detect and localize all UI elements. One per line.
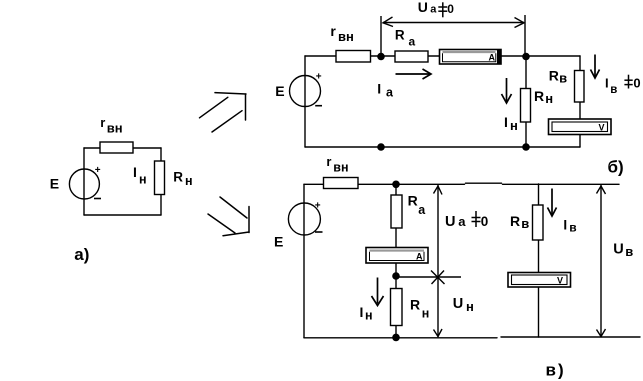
svg-text:н: н bbox=[545, 91, 553, 106]
voltmeter V (circuit v) bbox=[508, 273, 571, 288]
svg-text:E: E bbox=[275, 83, 284, 99]
svg-text:R: R bbox=[173, 169, 183, 184]
wire: circuit a bottom bbox=[84, 214, 161, 216]
svg-text:r: r bbox=[326, 154, 331, 169]
wire: circuit v middle branch vertical (Ra + ammeter + Rn) bbox=[395, 184, 397, 337]
dimension line U_v (circuit v) bbox=[597, 185, 606, 337]
svg-text:I: I bbox=[133, 164, 137, 180]
wire: circuit v left vertical bbox=[303, 184, 305, 337]
svg-text:н: н bbox=[185, 174, 193, 188]
wire: circuit a right vertical bbox=[160, 148, 162, 215]
svg-text:б): б) bbox=[608, 157, 624, 176]
arrow to circuit v (lower double arrow) bbox=[208, 197, 249, 236]
svg-text:I: I bbox=[563, 218, 567, 233]
svg-text:в: в bbox=[610, 84, 617, 96]
svg-text:a: a bbox=[409, 35, 416, 49]
wire: through source circuit b bbox=[304, 76, 306, 107]
svg-text:a: a bbox=[418, 203, 426, 217]
svg-text:вн: вн bbox=[338, 29, 354, 44]
svg-text:н: н bbox=[510, 118, 518, 133]
svg-text:н: н bbox=[139, 173, 147, 187]
svg-text:в): в) bbox=[546, 360, 566, 379]
svg-text:0: 0 bbox=[447, 2, 454, 16]
current arrow I_v (circuit v) bbox=[548, 189, 557, 217]
svg-text:A: A bbox=[489, 53, 496, 63]
current arrow I_n (circuit v) bbox=[372, 278, 384, 306]
node dot (circuit b, top left junction) bbox=[377, 53, 385, 61]
wire: circuit v bottom bbox=[304, 337, 497, 339]
svg-text:R: R bbox=[510, 213, 520, 229]
svg-text:в: в bbox=[559, 71, 567, 86]
node dot (circuit b, top right junction) bbox=[522, 53, 530, 61]
svg-text:вн: вн bbox=[107, 121, 123, 136]
wire: circuit a left vertical bbox=[83, 148, 85, 215]
wire: through source circuit a bbox=[83, 169, 85, 199]
node dot (circuit v, bottom junction) bbox=[392, 334, 400, 342]
resistor R_n (circuit v) bbox=[391, 289, 403, 326]
svg-text:+: + bbox=[316, 71, 322, 82]
svg-text:в: в bbox=[569, 220, 576, 234]
ammeter A (circuit b) bbox=[440, 50, 502, 65]
svg-text:V: V bbox=[557, 276, 563, 286]
voltmeter V (circuit b) bbox=[549, 119, 612, 135]
source E (circuit b) bbox=[290, 76, 321, 107]
svg-text:I: I bbox=[504, 114, 508, 130]
label - (circuit a source polarity) bbox=[94, 198, 101, 200]
node dot (circuit v, top junction) bbox=[392, 181, 400, 189]
dimension line U_a (circuit b) bbox=[383, 22, 524, 24]
svg-text:U: U bbox=[445, 214, 455, 230]
svg-text:а): а) bbox=[74, 245, 89, 264]
svg-text:R: R bbox=[395, 28, 405, 43]
svg-text:в: в bbox=[625, 244, 633, 259]
wire: circuit v right branch vertical (Rv + voltmeter) bbox=[538, 184, 540, 337]
svg-text:U: U bbox=[453, 296, 463, 312]
svg-text:a: a bbox=[458, 214, 466, 229]
svg-text:н: н bbox=[365, 309, 373, 323]
resistor R_n (circuit a) bbox=[155, 161, 165, 195]
ammeter A (circuit v) bbox=[366, 248, 428, 264]
wire: circuit b bottom bbox=[305, 146, 580, 148]
source E (circuit v) bbox=[288, 203, 320, 235]
node dot (circuit b, bottom right junction) bbox=[522, 143, 530, 151]
current arrow I_a (circuit b) bbox=[396, 69, 432, 79]
svg-text:U: U bbox=[613, 242, 623, 258]
svg-text:0: 0 bbox=[633, 76, 640, 91]
svg-text:r: r bbox=[100, 115, 105, 130]
svg-text:V: V bbox=[599, 123, 605, 133]
wire: circuit a top bbox=[84, 147, 161, 149]
resistor R_v (circuit b) bbox=[575, 71, 585, 103]
node dot (circuit b, bottom left junction) bbox=[377, 143, 385, 151]
resistor R_v (circuit v) bbox=[533, 205, 544, 240]
label - (circuit b source polarity) bbox=[315, 105, 322, 107]
svg-text:r: r bbox=[330, 23, 336, 39]
wire: circuit v top bbox=[304, 183, 465, 185]
resistor R_n (circuit b) bbox=[521, 89, 531, 123]
label not-equal-zero (circuit b, I_v) bbox=[624, 75, 632, 89]
dimension ticks U_a (circuit b) bbox=[381, 15, 525, 56]
wire: circuit b top bbox=[305, 55, 580, 57]
arrow to circuit b (upper double arrow) bbox=[200, 93, 247, 132]
node dot (circuit v, middle junction) bbox=[392, 272, 400, 280]
svg-text:I: I bbox=[377, 81, 381, 97]
resistor r_vn (circuit b) bbox=[336, 51, 371, 63]
svg-text:A: A bbox=[416, 252, 423, 262]
wire: circuit b right branch vertical (Rv + voltmeter) bbox=[579, 56, 581, 147]
svg-text:R: R bbox=[534, 88, 544, 104]
resistor R_a (circuit b) bbox=[395, 51, 428, 62]
svg-text:I: I bbox=[360, 304, 364, 320]
svg-text:R: R bbox=[408, 193, 418, 209]
svg-text:н: н bbox=[422, 307, 430, 321]
svg-text:0: 0 bbox=[481, 214, 489, 229]
svg-text:+: + bbox=[95, 165, 101, 176]
svg-text:R: R bbox=[410, 296, 420, 312]
svg-text:R: R bbox=[549, 67, 559, 83]
svg-text:a: a bbox=[430, 3, 437, 15]
wire: circuit b Rn branch vertical bbox=[525, 56, 527, 147]
dimension junction cross (circuit v) bbox=[397, 271, 461, 285]
svg-text:I: I bbox=[605, 75, 609, 90]
svg-text:вн: вн bbox=[333, 161, 348, 175]
current arrow I_n (circuit b) bbox=[502, 78, 512, 103]
resistor R_a (circuit v) bbox=[391, 195, 402, 228]
resistor r_vn (circuit a) bbox=[100, 142, 133, 153]
wire: through source circuit v bbox=[303, 203, 305, 235]
svg-text:E: E bbox=[274, 234, 283, 250]
svg-text:a: a bbox=[386, 86, 394, 100]
resistor r_vn (circuit v) bbox=[324, 178, 359, 189]
svg-text:в: в bbox=[521, 216, 529, 231]
svg-text:U: U bbox=[418, 0, 428, 15]
wire: circuit b left vertical bbox=[304, 56, 306, 147]
current arrow I_v (circuit b) bbox=[591, 55, 600, 79]
source E (circuit a) bbox=[69, 169, 99, 199]
svg-text:E: E bbox=[50, 176, 59, 192]
svg-text:н: н bbox=[466, 299, 474, 314]
dimension line U_a (circuit v) bbox=[434, 185, 443, 277]
label - (circuit v source polarity) bbox=[315, 231, 323, 233]
svg-text:+: + bbox=[315, 201, 321, 212]
dimension line U_n (circuit v) bbox=[434, 277, 443, 337]
